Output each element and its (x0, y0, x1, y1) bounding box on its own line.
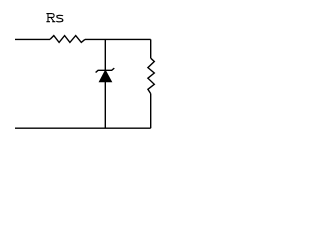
wire zener bottom lead (104, 82, 106, 129)
wire right resistor bottom lead (150, 94, 152, 129)
wire top (Rs to right resistor) (85, 38, 151, 40)
zener diode cathode bar (96, 68, 115, 72)
label Rs: letter s (56, 15, 63, 21)
wire zener top lead (104, 39, 106, 70)
resistor (load, right) (148, 58, 154, 93)
wire top-left input (15, 38, 50, 40)
resistor Rs (50, 36, 85, 43)
wire right resistor top lead (150, 39, 152, 58)
label Rs: letter R (46, 14, 55, 22)
wire bottom (15, 127, 151, 129)
zener diode anode triangle (99, 70, 111, 81)
